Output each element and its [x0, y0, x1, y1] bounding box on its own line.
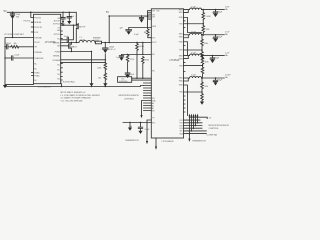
svg-text:100µF: 100µF	[217, 11, 223, 13]
wire bus top line	[189, 117, 207, 118]
svg-text:FB3: FB3	[179, 65, 182, 67]
pin stubs U1 right extra	[61, 17, 63, 80]
wire VIN bus right IC	[148, 11, 152, 24]
wire power ground rail	[61, 51, 92, 53]
capacitor 1uF EN	[129, 28, 152, 30]
svg-text:MTOP: MTOP	[79, 26, 86, 28]
junction	[12, 12, 14, 14]
svg-text:PG1: PG1	[179, 120, 182, 122]
svg-text:220µF: 220µF	[214, 57, 220, 59]
svg-text:SW2: SW2	[179, 37, 183, 39]
resistor RSENSE	[95, 41, 101, 44]
svg-text:INT: INT	[152, 111, 155, 113]
wire sense taps	[61, 60, 106, 63]
svg-text:PG4: PG4	[179, 128, 182, 130]
svg-text:215k: 215k	[130, 59, 134, 61]
svg-text:51k: 51k	[98, 77, 101, 79]
svg-text:309k: 309k	[205, 61, 209, 63]
svg-text:464k: 464k	[204, 43, 208, 45]
svg-text:SW2: SW2	[179, 34, 183, 36]
resistor divider VOSENSE	[104, 54, 106, 63]
svg-text:LTC3780 TA01: LTC3780 TA01	[62, 81, 76, 84]
svg-text:2.2µH: 2.2µH	[191, 52, 197, 54]
pin labels U2 left	[152, 10, 159, 72]
wire output 2	[202, 34, 225, 36]
channel 3 output	[184, 52, 230, 78]
svg-text:PGND: PGND	[55, 51, 61, 53]
svg-text:RUN: RUN	[152, 26, 157, 28]
svg-text:324k: 324k	[145, 59, 149, 61]
IC U2	[151, 9, 183, 138]
wire gate line MTOP	[61, 24, 77, 26]
svg-text:10k: 10k	[14, 43, 17, 45]
channel 4 output	[184, 75, 232, 116]
svg-text:1.5µH: 1.5µH	[191, 32, 197, 34]
svg-text:1.40M: 1.40M	[139, 46, 145, 48]
wire GND4 routed	[184, 85, 188, 116]
wire bottom pin arrow	[155, 138, 157, 147]
svg-text:FB1: FB1	[179, 24, 182, 26]
svg-text:LTC3780 COMP NET: LTC3780 COMP NET	[4, 34, 25, 36]
svg-text:*C2: OS-CON 4SP150M: *C2: OS-CON 4SP150M	[61, 100, 83, 102]
svg-text:SGND: SGND	[34, 72, 40, 74]
capacitor C2 150uF output	[105, 42, 107, 44]
svg-text:SENSE–: SENSE–	[53, 55, 60, 57]
capacitor 0.1uF comp	[5, 57, 11, 59]
svg-text:EXTVCC: EXTVCC	[53, 23, 61, 25]
wire SW2 pins	[184, 35, 190, 38]
svg-text:4700pF: 4700pF	[5, 43, 12, 45]
wire 5V rail	[7, 11, 76, 13]
svg-text:CONTROL: CONTROL	[209, 128, 220, 130]
svg-text:SW4: SW4	[179, 81, 183, 83]
resistor FB4 divider	[201, 78, 203, 82]
svg-text:SENSE+: SENSE+	[53, 42, 60, 44]
svg-text:C2: SANYO POSCAP 6TPA150M: C2: SANYO POSCAP 6TPA150M	[61, 97, 91, 100]
pin stubs U1 top-left group	[31, 12, 34, 32]
capacitor 1uF INTVCC	[69, 12, 70, 13]
svg-text:MICROPROCESSOR: MICROPROCESSOR	[209, 125, 230, 127]
wire thermistor arrow right	[188, 134, 190, 139]
svg-text:ITH: ITH	[34, 47, 37, 49]
inductor L5	[190, 77, 202, 79]
wire bus verticals right	[189, 116, 197, 134]
transistor MTOP	[76, 24, 78, 43]
svg-text:2.2µH: 2.2µH	[191, 6, 197, 8]
pin labels U2 bottom-right	[179, 120, 183, 135]
wire output 3	[202, 55, 225, 57]
svg-text:TRACK/SS: TRACK/SS	[34, 57, 44, 60]
wire VOUT sense arrow	[142, 101, 152, 116]
svg-text:CONTROL: CONTROL	[119, 81, 128, 83]
pin labels U1 right	[53, 18, 61, 80]
capacitor 22uF VCC	[141, 15, 142, 16]
wire bus horizontals right	[184, 120, 207, 134]
svg-text:169k: 169k	[204, 86, 208, 88]
svg-text:PG3: PG3	[179, 125, 182, 127]
svg-text:5V: 5V	[4, 9, 7, 13]
wire ground return long	[5, 86, 144, 87]
svg-text:LTC3544EUF: LTC3544EUF	[162, 141, 175, 143]
svg-text:5V: 5V	[106, 11, 109, 14]
svg-text:VIN: VIN	[157, 10, 160, 12]
svg-text:SW1: SW1	[179, 12, 183, 14]
svg-text:FB2: FB2	[179, 50, 182, 52]
svg-text:THERMISTOR: THERMISTOR	[192, 140, 206, 142]
resistor FB2 divider	[201, 35, 203, 39]
wire comp loop top	[5, 38, 34, 85]
svg-text:PLLFLTR: PLLFLTR	[34, 27, 42, 29]
resistor 1M pullup	[147, 29, 150, 36]
pin stubs U2 extra	[184, 21, 186, 112]
wire GND2 routed	[184, 42, 188, 56]
inductor L2	[190, 8, 202, 10]
pin labels U1 left	[34, 17, 44, 82]
wire GND1 routed	[184, 18, 202, 33]
svg-text:MICROPROCESSOR: MICROPROCESSOR	[119, 95, 140, 97]
svg-text:0.015Ω: 0.015Ω	[93, 40, 100, 42]
capacitor COUT4	[215, 78, 217, 80]
svg-text:CONTROL: CONTROL	[124, 98, 135, 100]
svg-text:SW3: SW3	[179, 58, 183, 60]
svg-text:VIN: VIN	[152, 17, 155, 19]
svg-text:FB4: FB4	[179, 92, 182, 94]
wire thermistor sense pin arrow	[147, 120, 151, 141]
resistor chain VOUT prog	[142, 42, 143, 43]
svg-text:GND: GND	[179, 42, 184, 44]
pin labels U2 right	[179, 9, 184, 93]
wire SW3 pins	[184, 56, 190, 59]
capacitor 4700pF	[5, 46, 6, 48]
svg-text:PLLIN: PLLIN	[34, 42, 40, 44]
svg-text:2.2µH: 2.2µH	[191, 75, 197, 77]
capacitor 0.1uF thermistor	[140, 123, 142, 128]
svg-text:SW: SW	[57, 30, 60, 32]
resistor FB3 divider	[202, 56, 204, 58]
wire output 4	[202, 77, 225, 79]
capacitor COUT1	[215, 10, 217, 12]
svg-text:200k: 200k	[97, 67, 101, 69]
svg-text:GND: GND	[179, 17, 184, 19]
svg-text:PGND: PGND	[34, 75, 40, 77]
wire comp loop bottom	[5, 83, 34, 85]
ground thermistor divider	[129, 123, 131, 128]
svg-text:VIN: VIN	[152, 10, 155, 12]
svg-text:SW3: SW3	[179, 55, 183, 57]
diode D1	[62, 21, 64, 24]
wire SW4 pins	[184, 78, 190, 81]
transistor MBOT	[61, 43, 72, 52]
svg-text:INTVCC: INTVCC	[54, 34, 61, 36]
pin labels U2 bottom-left	[152, 98, 156, 124]
wire FB tap line	[122, 54, 152, 56]
svg-text:0.1µF: 0.1µF	[15, 55, 21, 57]
capacitor COUT2	[215, 35, 217, 37]
capacitor C1 input 22uF	[12, 12, 14, 13]
svg-text:GND: GND	[179, 85, 184, 87]
svg-text:1.05M: 1.05M	[206, 16, 211, 18]
resistor FB1 divider	[202, 10, 204, 13]
resistor 40k thermistor divider	[123, 122, 151, 124]
svg-text:STBYMD: STBYMD	[34, 37, 42, 39]
note text block	[61, 92, 101, 102]
svg-text:LCOMP INN: LCOMP INN	[207, 134, 218, 136]
wire PGND drop	[91, 52, 93, 87]
channel 2 output	[184, 32, 230, 59]
capacitor boost 0.1uF	[61, 25, 74, 42]
capacitor COUT3	[212, 56, 214, 58]
IC U1 LTC3780	[34, 14, 61, 83]
pin stubs U1 lower-left	[32, 73, 34, 76]
svg-text:SW1: SW1	[179, 9, 183, 11]
svg-text:MBOT: MBOT	[71, 46, 78, 48]
wire VIN drop to MTOP	[75, 12, 77, 24]
svg-text:100µF: 100µF	[217, 80, 223, 82]
svg-text:VOSENSE: VOSENSE	[34, 52, 41, 54]
resistor 215k	[127, 54, 129, 57]
inductor L4	[190, 54, 202, 56]
svg-text:L1: COILCRAFT DO1813P-472HC 5M: L1: COILCRAFT DO1813P-472HC 5M-8052	[61, 94, 101, 97]
svg-text:BOOST: BOOST	[54, 20, 61, 22]
svg-text:6.3V ×2: 6.3V ×2	[109, 48, 116, 51]
control box	[118, 77, 132, 83]
wire VCC rail right	[109, 15, 147, 17]
wire SW node	[61, 42, 79, 44]
inductor L3	[190, 33, 202, 35]
capacitor 1uF FB filter	[121, 54, 123, 57]
svg-text:332k: 332k	[206, 29, 210, 31]
svg-text:VOSENSE: VOSENSE	[53, 60, 60, 62]
wire SGND drop	[61, 84, 63, 87]
svg-text:SW4: SW4	[179, 78, 183, 80]
svg-text:PGOOD: PGOOD	[24, 20, 31, 22]
capacitor 0.1uF VIN bypass	[62, 12, 63, 13]
svg-text:SCL: SCL	[180, 131, 183, 133]
svg-text:SCL: SCL	[152, 98, 155, 100]
channel 1 output	[184, 6, 230, 35]
inductor L1	[79, 41, 95, 43]
ground comp loop	[3, 85, 7, 88]
resistor 280k chain	[136, 42, 137, 43]
wire SW1 pins	[184, 10, 190, 13]
svg-text:100µF: 100µF	[217, 36, 223, 38]
svg-text:MTOP, MBOT: Si9804DY x2: MTOP, MBOT: Si9804DY x2	[61, 92, 87, 94]
resistor 10k comp	[11, 46, 19, 49]
wire bus stubs U2 left	[144, 83, 152, 111]
ground arrow mid	[89, 83, 93, 86]
ground input cap	[10, 16, 14, 19]
svg-text:PGOOD: PGOOD	[34, 17, 41, 19]
svg-text:3.3µH: 3.3µH	[80, 39, 86, 41]
svg-text:PG2: PG2	[179, 123, 182, 125]
svg-text:THERMISTOR: THERMISTOR	[125, 140, 139, 142]
svg-text:RUN/SS: RUN/SS	[34, 22, 42, 24]
wire output 1	[202, 9, 225, 11]
wire vertical feed to comp loop	[12, 19, 14, 38]
